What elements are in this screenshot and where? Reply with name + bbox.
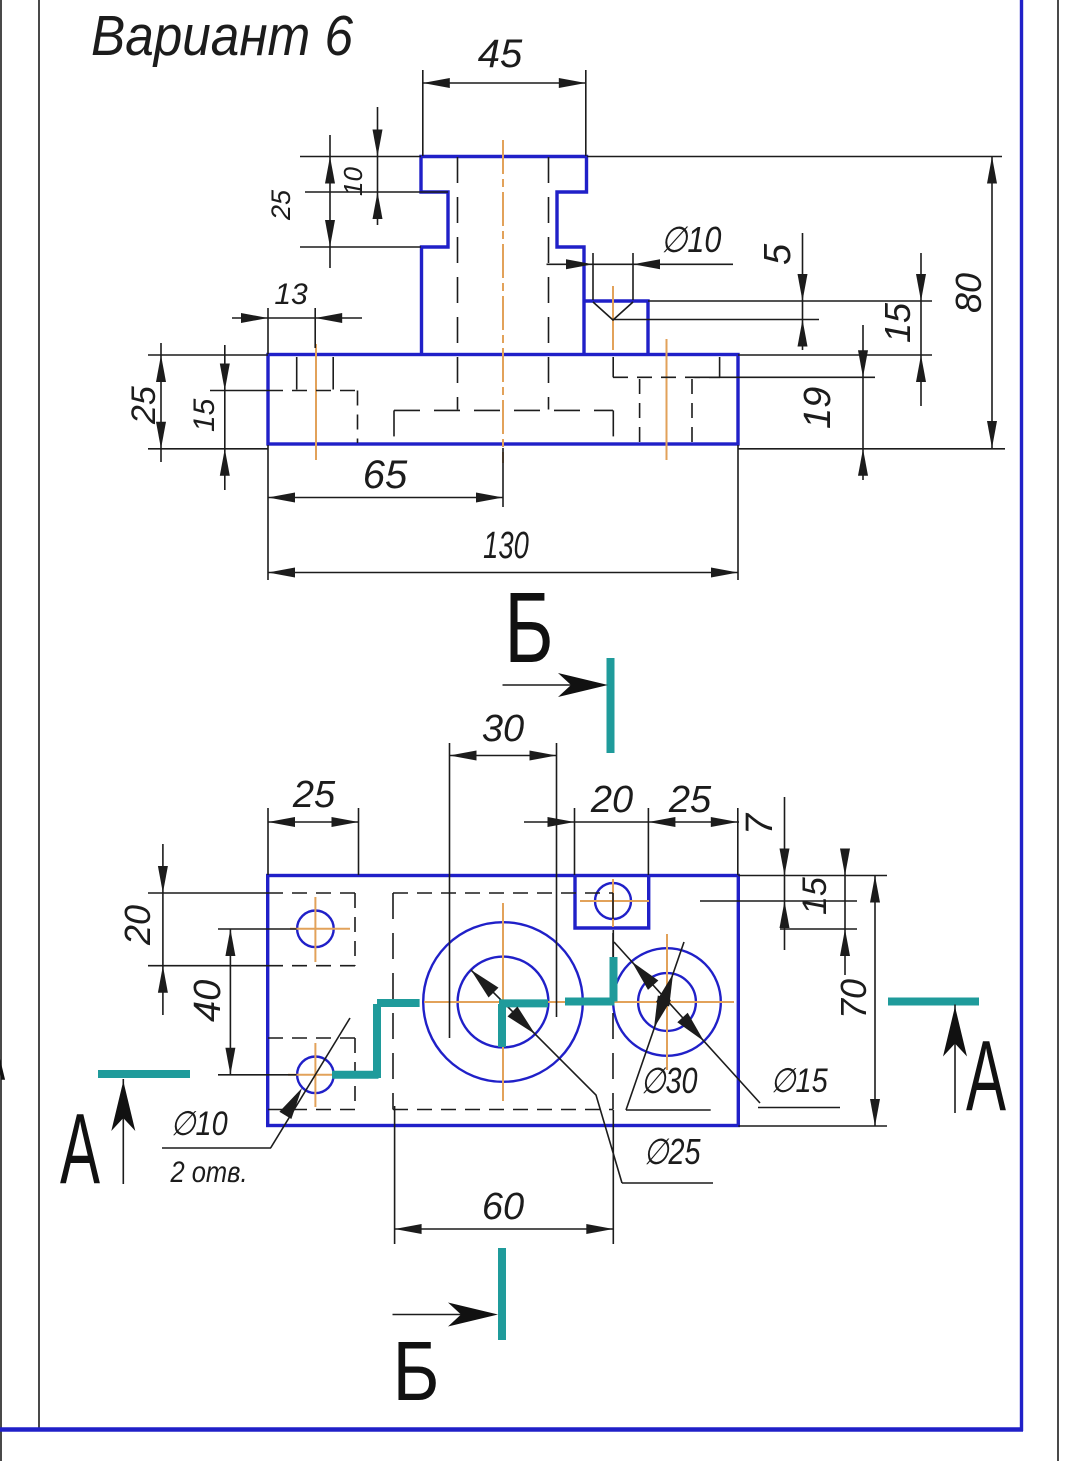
svg-text:А: А <box>0 1021 6 1095</box>
svg-text:∅30: ∅30 <box>640 1060 697 1101</box>
svg-text:∅10: ∅10 <box>170 1104 228 1143</box>
svg-text:А: А <box>966 1020 1006 1132</box>
svg-text:13: 13 <box>274 278 308 311</box>
svg-text:∅15: ∅15 <box>770 1061 828 1100</box>
svg-text:30: 30 <box>482 708 524 750</box>
svg-text:7: 7 <box>739 812 781 835</box>
svg-text:19: 19 <box>797 387 839 429</box>
svg-text:40: 40 <box>187 980 229 1022</box>
svg-text:Б: Б <box>393 1323 440 1418</box>
svg-text:15: 15 <box>796 877 834 915</box>
svg-text:60: 60 <box>482 1186 524 1228</box>
svg-text:∅10: ∅10 <box>661 221 722 261</box>
svg-text:65: 65 <box>363 453 408 497</box>
svg-text:2 отв.: 2 отв. <box>170 1155 248 1188</box>
svg-text:20: 20 <box>590 779 633 821</box>
svg-text:Вариант 6: Вариант 6 <box>91 5 354 68</box>
svg-text:20: 20 <box>117 905 158 946</box>
svg-text:25: 25 <box>266 189 296 221</box>
svg-text:15: 15 <box>877 302 918 343</box>
svg-text:Б: Б <box>504 571 553 683</box>
svg-text:70: 70 <box>833 979 874 1019</box>
svg-text:10: 10 <box>338 167 368 196</box>
svg-text:5: 5 <box>757 243 799 265</box>
svg-text:45: 45 <box>478 32 523 76</box>
svg-text:25: 25 <box>125 386 163 425</box>
svg-text:130: 130 <box>483 525 529 567</box>
svg-text:25: 25 <box>292 774 336 816</box>
svg-text:80: 80 <box>948 273 989 313</box>
svg-text:∅25: ∅25 <box>643 1131 701 1172</box>
svg-text:А: А <box>60 1093 100 1205</box>
svg-text:25: 25 <box>668 779 712 821</box>
svg-text:15: 15 <box>188 398 221 432</box>
